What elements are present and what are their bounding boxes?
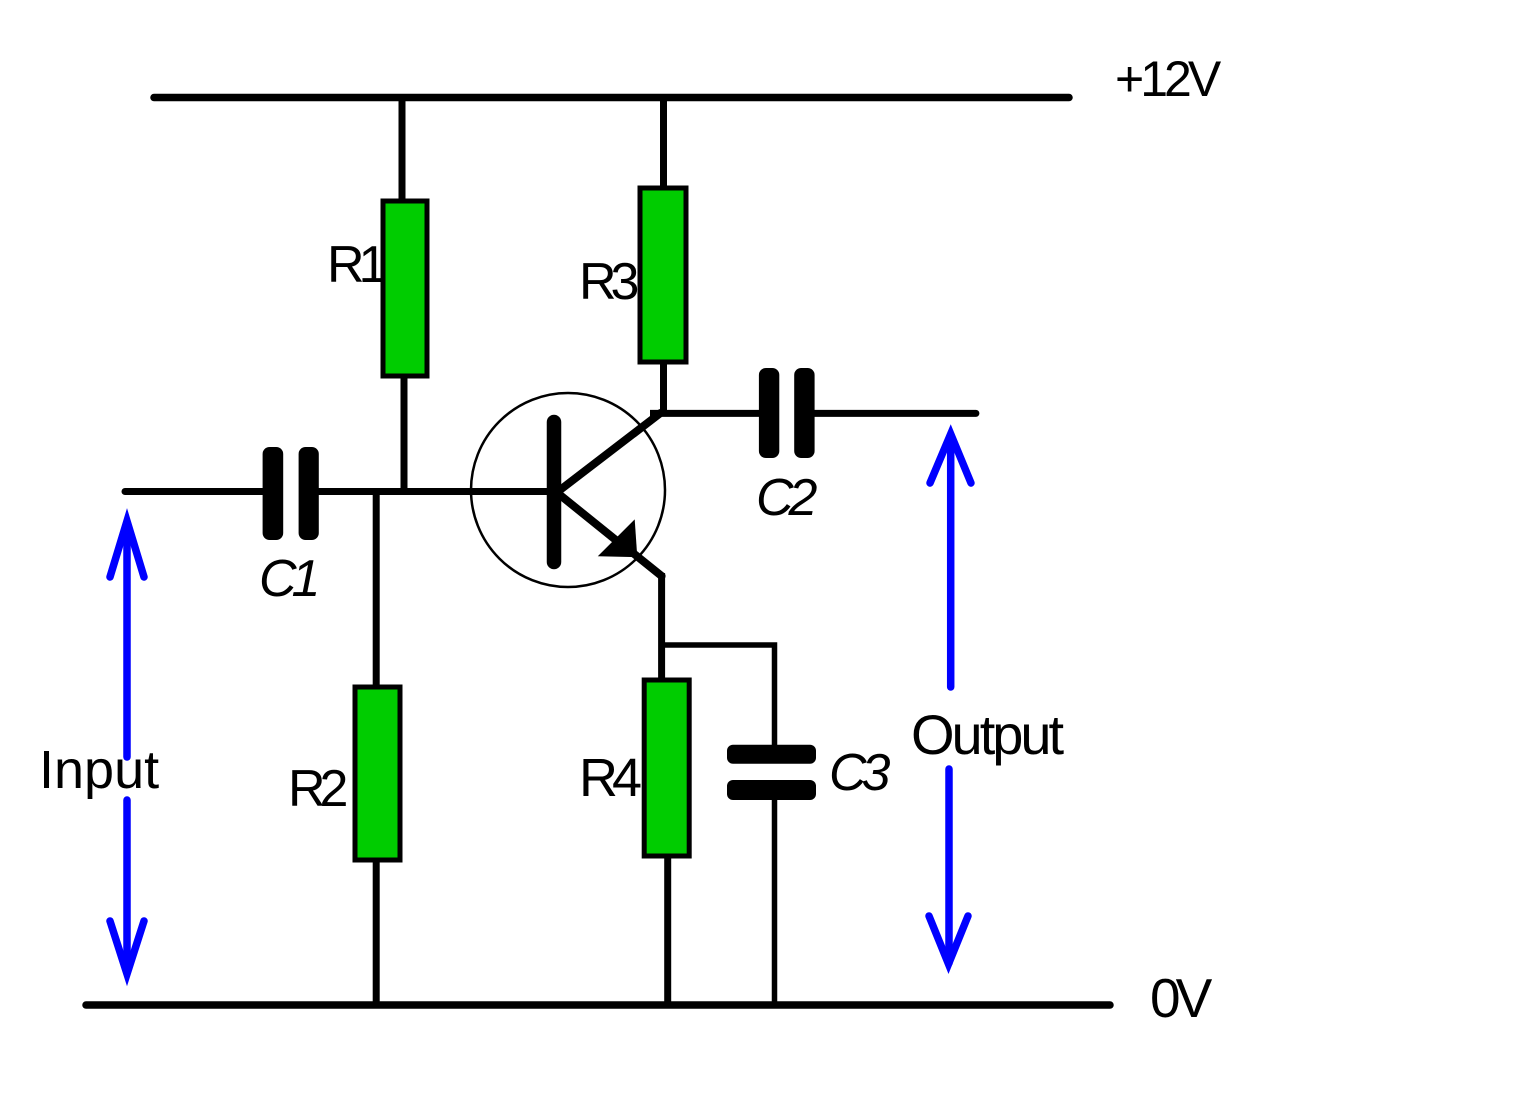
svg-text:R2: R2	[288, 760, 347, 818]
svg-text:R3: R3	[579, 253, 638, 311]
svg-text:R1: R1	[327, 236, 386, 294]
svg-text:0V: 0V	[1150, 967, 1213, 1029]
svg-text:+12V: +12V	[1115, 51, 1222, 107]
svg-text:C2: C2	[756, 469, 818, 527]
svg-text:Output: Output	[911, 703, 1065, 766]
svg-text:Input: Input	[39, 740, 159, 800]
svg-text:R4: R4	[579, 748, 641, 808]
svg-text:C1: C1	[259, 550, 317, 608]
svg-text:C3: C3	[829, 744, 891, 802]
